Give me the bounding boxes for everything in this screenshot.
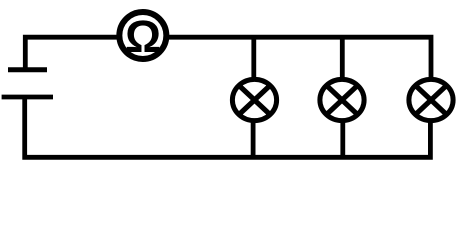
lamp L3 cross xyxy=(415,85,446,114)
wire: drop from top rail to lamp L1 xyxy=(251,37,256,80)
lamp L1 circle xyxy=(232,79,276,120)
wire: bottom rail with left vertical from battery and right rise to lamp L3 xyxy=(25,97,431,157)
battery B1 top plate (short) xyxy=(8,67,47,72)
lamp L2 cross xyxy=(326,85,357,114)
battery B1 bottom plate (long) xyxy=(2,95,53,100)
lamp L1 cross xyxy=(239,85,270,114)
wire: drop from top rail to lamp L2 xyxy=(340,37,345,80)
svg-text:Ω: Ω xyxy=(125,11,161,62)
ohmmeter U1 circle xyxy=(119,12,166,59)
lamp L3 circle xyxy=(409,79,453,120)
wire: top rail with left vertical to battery and right drop to lamp L3 xyxy=(25,37,431,80)
lamp L2 circle xyxy=(320,79,364,120)
wire: stub from lamp L1 to bottom rail xyxy=(251,120,256,157)
wire: stub from lamp L2 to bottom rail xyxy=(340,120,345,157)
